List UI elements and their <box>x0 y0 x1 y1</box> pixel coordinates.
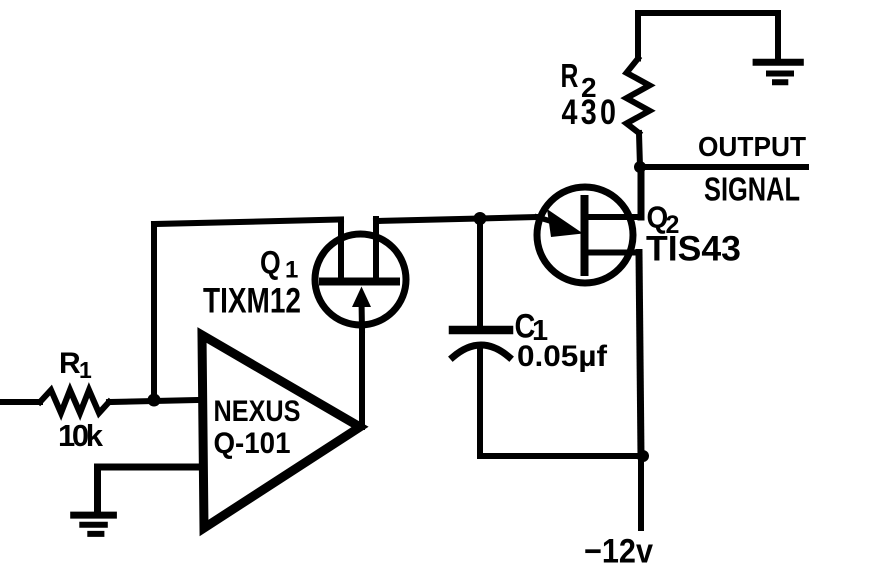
label R1 <box>59 347 92 383</box>
wire feedback down to Q1 drain <box>338 220 344 279</box>
label C1 <box>515 306 549 347</box>
wire input to R1 <box>0 399 40 405</box>
svg-text:10k: 10k <box>58 418 104 453</box>
ground top right <box>753 62 804 82</box>
wire output node up to R2 <box>639 133 640 167</box>
wire R2 top <box>638 13 778 61</box>
svg-text:TIS43: TIS43 <box>646 230 741 269</box>
wire Q1 source to junction and Q2 emitter <box>376 217 539 221</box>
wire op-amp output up to Q1 gate <box>359 330 365 427</box>
transistor Q1 <box>315 219 406 330</box>
svg-text:OUTPUT: OUTPUT <box>698 131 806 162</box>
wire feedback vertical left <box>151 224 157 402</box>
wire Q2 base2 up to output node <box>638 167 645 217</box>
resistor R1 <box>40 390 109 413</box>
svg-text:TIXM12: TIXM12 <box>203 282 301 321</box>
label R2 <box>561 59 597 103</box>
svg-text:−12v: −12v <box>584 533 653 570</box>
svg-text:Q: Q <box>260 245 281 281</box>
label Q2 <box>647 200 680 239</box>
op-amp U1 <box>202 335 360 528</box>
svg-text:NEXUS: NEXUS <box>214 395 301 428</box>
wire C1 to bottom rail <box>477 346 483 456</box>
wire junction down to C1 <box>477 219 483 328</box>
svg-text:0.05µf: 0.05µf <box>517 340 608 373</box>
svg-text:430: 430 <box>562 92 620 131</box>
resistor R2 <box>627 59 650 134</box>
wire output signal <box>640 164 806 170</box>
svg-text:R: R <box>561 59 579 95</box>
ground lower left <box>70 515 117 534</box>
wire non-inverting input <box>98 467 201 513</box>
svg-text:SIGNAL: SIGNAL <box>704 171 800 208</box>
wire feedback top horizontal <box>154 220 341 225</box>
transistor Q2 <box>537 187 641 283</box>
capacitor C1 <box>453 330 509 357</box>
wire Q2 base1 down to bottom junction <box>639 253 641 457</box>
node junction at inverting input <box>148 394 161 407</box>
wire R1 to op-amp inverting input <box>109 400 200 402</box>
wire bottom horizontal <box>480 453 641 459</box>
svg-text:Q-101: Q-101 <box>214 427 291 460</box>
svg-text:1: 1 <box>285 257 298 284</box>
label Q1 <box>260 245 298 283</box>
svg-text:R: R <box>59 347 81 380</box>
wire to -12v <box>638 456 644 528</box>
node junction above C1 <box>474 212 487 225</box>
svg-text:1: 1 <box>79 357 92 383</box>
node junction bottom <box>637 450 649 462</box>
node output junction <box>634 161 646 173</box>
